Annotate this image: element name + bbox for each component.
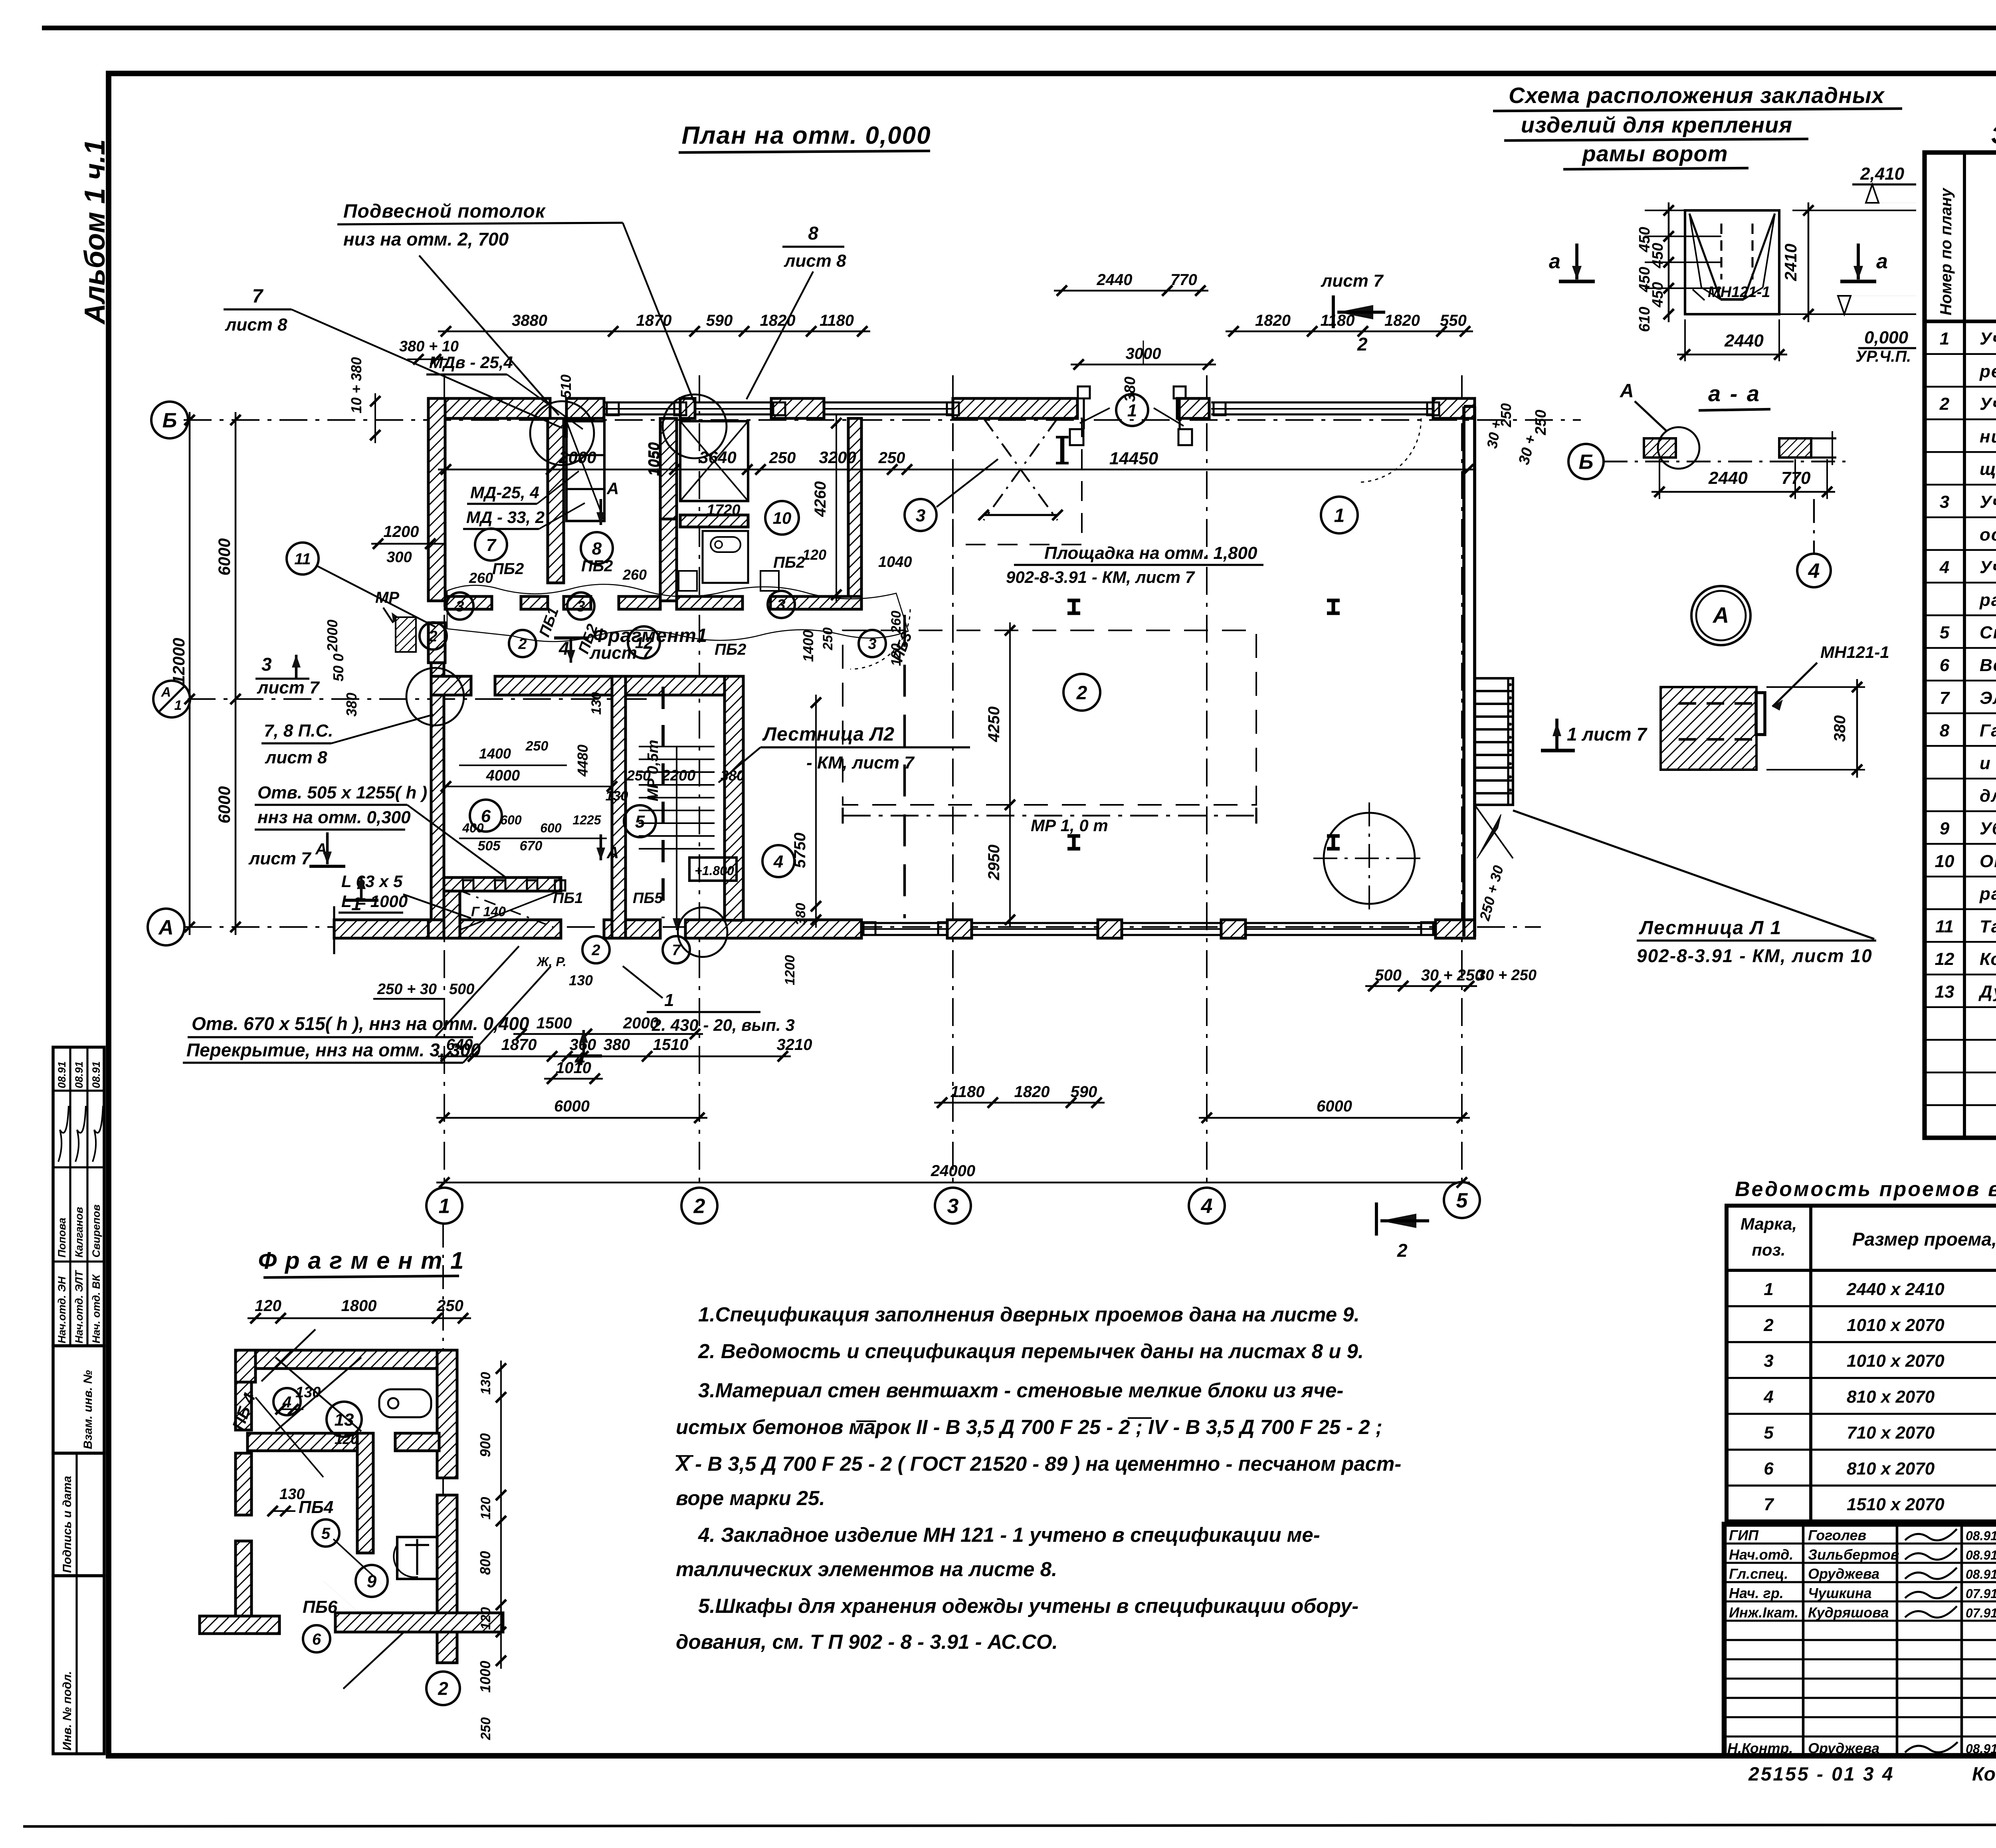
svg-text:4: 4	[773, 852, 783, 872]
svg-text:13: 13	[1935, 982, 1954, 1002]
svg-text:а: а	[1876, 250, 1888, 273]
svg-text:Нач.отд. ЭН: Нач.отд. ЭН	[56, 1276, 68, 1343]
svg-text:воре марки 25.: воре марки 25.	[676, 1487, 825, 1509]
svg-text:260: 260	[469, 570, 493, 586]
svg-text:ПБ2: ПБ2	[581, 557, 613, 575]
svg-text:поз.: поз.	[1752, 1240, 1785, 1259]
node gate dim 2440 770	[1054, 290, 1208, 292]
svg-text:4. Закладное изделие МН 121: 4. Закладное изделие МН 121 - 1 учтено в…	[698, 1523, 1320, 1546]
svg-text:щих и прочих промстоков: щих и прочих промстоков	[1980, 460, 1996, 479]
svg-text:10 + 380: 10 + 380	[348, 357, 364, 413]
wall corridor north	[445, 596, 492, 609]
svg-text:130: 130	[606, 788, 628, 804]
node room circle 1	[1321, 497, 1358, 533]
svg-text:300: 300	[386, 549, 412, 566]
svg-text:Оруджева: Оруджева	[1808, 1566, 1879, 1582]
node bottom dim 1500 2000	[513, 1033, 703, 1035]
svg-text:А: А	[606, 843, 619, 862]
svg-text:8: 8	[808, 223, 818, 244]
svg-text:3.Материал стен вентшахт -: 3.Материал стен вентшахт - стеновые мелк…	[698, 1379, 1343, 1402]
svg-text:Подвесной потолок: Подвесной потолок	[343, 201, 546, 222]
node room circle 2	[1063, 674, 1100, 711]
node room circle 5	[624, 805, 656, 837]
node axis line 4	[1206, 375, 1208, 1188]
svg-text:10: 10	[773, 509, 792, 527]
node MP hatch box	[396, 617, 416, 652]
svg-text:7: 7	[672, 942, 681, 959]
svg-text:Номер по плану: Номер по плану	[1937, 188, 1955, 315]
svg-text:3200: 3200	[819, 448, 856, 467]
svg-text:Участок очистки н: Участок очистки н	[1980, 329, 1996, 349]
node ramp squares	[463, 880, 473, 891]
svg-text:6: 6	[1940, 656, 1950, 675]
node dim 380 detail	[1856, 679, 1858, 778]
node room circle 10	[765, 501, 799, 535]
svg-text:1225: 1225	[572, 813, 601, 827]
svg-text:250: 250	[626, 767, 651, 784]
svg-text:5: 5	[635, 812, 645, 832]
svg-text:450: 450	[1649, 243, 1666, 268]
node fragment walls	[236, 1350, 457, 1369]
svg-text:Подпись и дата: Подпись и дата	[61, 1476, 74, 1573]
node fragment right dims	[500, 1361, 502, 1669]
node I mark gate	[1060, 437, 1064, 463]
svg-text:рамы ворот: рамы ворот	[1581, 141, 1728, 166]
node window frame marks top	[607, 402, 619, 415]
node fragment X shaft	[275, 1357, 361, 1431]
node axis line B	[184, 419, 1581, 421]
node axis circle A	[148, 909, 184, 945]
svg-text:лист 7: лист 7	[257, 678, 320, 697]
svg-text:Зильбертов: Зильбертов	[1808, 1546, 1899, 1563]
node fragment axis 2	[426, 1672, 460, 1705]
svg-text:770: 770	[1170, 271, 1197, 289]
node bottom 6000 left	[436, 1117, 707, 1119]
svg-text:120: 120	[478, 1497, 493, 1520]
svg-text:130: 130	[569, 972, 593, 988]
svg-text:1.Спецификация заполнения дв: 1.Спецификация заполнения дверных проемо…	[698, 1303, 1360, 1326]
svg-text:Участок приготовления: Участок приготовления	[1980, 558, 1996, 577]
node MH121-1 wall detail	[1661, 687, 1756, 770]
svg-text:4: 4	[1939, 558, 1949, 577]
node left stamp signature table	[53, 1047, 104, 1346]
node axis line 1	[444, 375, 445, 1188]
svg-text:А: А	[161, 685, 171, 700]
svg-text:1510 х 2070: 1510 х 2070	[1847, 1495, 1945, 1514]
svg-text:810 х 2070: 810 х 2070	[1847, 1459, 1935, 1478]
node bottom right dims 500	[1365, 985, 1477, 987]
svg-text:Копировал: Сидорова: Копировал: Сидорова	[1972, 1764, 1996, 1785]
svg-text:13: 13	[335, 1410, 354, 1430]
svg-text:6000: 6000	[1317, 1097, 1352, 1115]
wall lower north	[431, 676, 471, 695]
svg-text:1: 1	[174, 698, 182, 713]
svg-text:07.91: 07.91	[1966, 1606, 1996, 1620]
node platform dashed at gate	[953, 418, 1082, 545]
svg-text:МН121-1: МН121-1	[1820, 643, 1889, 662]
svg-text:Венткамера и тепловой пункт: Венткамера и тепловой пункт	[1980, 656, 1996, 675]
node title block	[1724, 1524, 1996, 1756]
svg-text:4480: 4480	[574, 745, 591, 777]
node level mark 0000	[1838, 296, 1851, 314]
node room circle 6	[470, 800, 502, 832]
svg-text:4250: 4250	[985, 707, 1003, 743]
node dim 2440 elevation	[1677, 354, 1787, 356]
svg-text:380 + 10: 380 + 10	[399, 338, 459, 355]
svg-text:1510: 1510	[653, 1036, 689, 1054]
wall right	[1462, 406, 1465, 937]
svg-text:Свирепов: Свирепов	[90, 1204, 102, 1258]
svg-text:250: 250	[1498, 403, 1514, 428]
node vent shafts room 8	[566, 421, 604, 521]
svg-text:7: 7	[1764, 1495, 1774, 1514]
svg-text:500: 500	[449, 981, 474, 998]
svg-text:10: 10	[1935, 852, 1954, 871]
svg-text:нических, краскосодержа-: нических, краскосодержа-	[1980, 427, 1996, 446]
svg-text:Площадка на отм. 1,800: Площадка на отм. 1,800	[1044, 543, 1257, 563]
svg-text:Нач. отд. ВК: Нач. отд. ВК	[90, 1274, 102, 1343]
svg-text:260: 260	[889, 611, 904, 634]
node shaft X room 13	[680, 421, 748, 501]
node room circle 12	[628, 626, 660, 658]
svg-text:Нач. гр.: Нач. гр.	[1729, 1585, 1784, 1601]
node fragment leaders	[261, 1329, 315, 1381]
svg-text:Х - В 3,5 Д 700 F 25 - 2 (: Х - В 3,5 Д 700 F 25 - 2 ( ГОСТ 21520 - …	[675, 1452, 1401, 1475]
svg-text:120: 120	[478, 1607, 493, 1630]
svg-text:Гл.спец.: Гл.спец.	[1729, 1566, 1788, 1582]
svg-text:380: 380	[1122, 376, 1139, 402]
node column marks	[1067, 598, 1080, 602]
svg-text:810 х 2070: 810 х 2070	[1847, 1387, 1935, 1407]
svg-text:Душевая: Душевая	[1978, 982, 1996, 1002]
svg-text:а: а	[1549, 250, 1560, 273]
svg-text:50 0: 50 0	[330, 654, 347, 681]
svg-text:120: 120	[335, 1431, 358, 1447]
svg-text:1: 1	[439, 1195, 450, 1218]
svg-text:лист 7: лист 7	[1321, 271, 1384, 291]
svg-text:Операторская и химлабо-: Операторская и химлабо-	[1980, 852, 1996, 871]
node axis line 2	[699, 375, 700, 1188]
svg-text:а - а: а - а	[1708, 381, 1761, 406]
svg-text:ннз на отм. 0,300: ннз на отм. 0,300	[257, 808, 411, 827]
svg-text:590: 590	[1071, 1083, 1097, 1101]
svg-text:Лестница Л 1: Лестница Л 1	[1639, 917, 1782, 939]
node stair L1	[1475, 678, 1513, 805]
node wc partition	[680, 515, 748, 527]
svg-text:МД - 33, 2: МД - 33, 2	[466, 508, 545, 527]
svg-text:- КМ, лист 7: - КМ, лист 7	[806, 753, 915, 772]
svg-text:Электрощитовая: Электрощитовая	[1980, 688, 1996, 708]
svg-text:Гоголев: Гоголев	[1808, 1527, 1866, 1543]
svg-text:лист 8: лист 8	[265, 748, 327, 767]
svg-text:1 лист 7: 1 лист 7	[1567, 724, 1647, 745]
svg-text:1500: 1500	[537, 1014, 572, 1032]
svg-text:2. 430 - 20, вып. 3: 2. 430 - 20, вып. 3	[651, 1016, 795, 1034]
svg-text:ПБ2: ПБ2	[773, 554, 805, 571]
svg-text:А: А	[1712, 602, 1729, 628]
svg-text:Попова: Попова	[56, 1218, 68, 1258]
svg-text:250: 250	[769, 449, 796, 467]
svg-text:120: 120	[802, 547, 826, 563]
svg-text:1: 1	[1764, 1280, 1773, 1299]
svg-text:ГИП: ГИП	[1729, 1527, 1759, 1543]
svg-text:6000: 6000	[215, 786, 234, 823]
svg-text:Отв. 670 х 515( h ), ннз на от: Отв. 670 х 515( h ), ннз на отм. 0,400	[192, 1013, 529, 1034]
node room circle 11	[287, 543, 319, 574]
node dims 5750 380	[815, 695, 817, 928]
svg-text:08.91: 08.91	[90, 1061, 102, 1088]
svg-text:3: 3	[1940, 492, 1949, 512]
svg-text:9: 9	[1940, 819, 1950, 838]
node axis B circle schema	[1568, 444, 1604, 479]
node section mark 1 list7	[1555, 719, 1558, 751]
svg-text:Ф р а г м е н т 1: Ф р а г м е н т 1	[258, 1247, 465, 1274]
node top right dim chain	[1226, 331, 1473, 333]
node detail A circle	[1691, 586, 1750, 645]
svg-text:Ведомость проемов ворот и двер: Ведомость проемов ворот и дверей	[1735, 1178, 1996, 1201]
svg-text:раствора: раствора	[1979, 590, 1996, 610]
svg-text:2000: 2000	[324, 620, 341, 652]
svg-text:лист 7: лист 7	[248, 849, 312, 868]
svg-text:30 + 250: 30 + 250	[1421, 967, 1484, 984]
svg-text:Тамбур: Тамбур	[1980, 917, 1996, 936]
svg-text:08.91: 08.91	[1966, 1548, 1996, 1562]
svg-text:600: 600	[540, 821, 562, 835]
svg-text:670: 670	[520, 838, 543, 854]
node axis circle 4	[1189, 1188, 1225, 1224]
svg-text:УР.Ч.П.: УР.Ч.П.	[1855, 348, 1911, 365]
wall left	[428, 398, 445, 601]
svg-text:Лестница Л2: Лестница Л2	[762, 724, 895, 745]
svg-text:Схема расположения закладных: Схема расположения закладных	[1509, 83, 1885, 108]
svg-text:2440: 2440	[1724, 331, 1764, 351]
svg-text:ПБ5: ПБ5	[633, 890, 663, 907]
svg-text:4: 4	[558, 638, 569, 659]
svg-text:таллических элементов на: таллических элементов на листе 8.	[676, 1558, 1057, 1581]
svg-text:8: 8	[592, 539, 602, 559]
svg-text:2: 2	[438, 1678, 448, 1699]
svg-text:2: 2	[1357, 334, 1368, 355]
node circled 3 leader	[905, 499, 937, 531]
svg-text:А: А	[158, 916, 174, 939]
node section arrow 3	[295, 655, 298, 679]
node axis 4 line schema	[1813, 499, 1815, 555]
svg-text:Кудряшова: Кудряшова	[1808, 1604, 1889, 1620]
svg-text:7: 7	[1940, 688, 1950, 708]
svg-text:11: 11	[294, 550, 311, 568]
svg-text:+1.800: +1.800	[695, 864, 734, 878]
node dim 14450	[438, 469, 1476, 471]
node left dim 12000	[189, 412, 191, 935]
node bottom windows	[861, 922, 947, 924]
svg-text:12: 12	[1935, 949, 1954, 969]
node axis line 5	[1461, 375, 1463, 1188]
svg-text:250: 250	[525, 739, 549, 754]
svg-text:4: 4	[1201, 1195, 1213, 1218]
svg-text:14450: 14450	[1109, 449, 1158, 468]
svg-text:3: 3	[576, 598, 585, 615]
svg-text:30 + 250: 30 + 250	[1477, 967, 1537, 984]
svg-text:710 х 2070: 710 х 2070	[1847, 1423, 1935, 1442]
svg-text:7: 7	[486, 535, 497, 555]
svg-text:истых бетонов марок II - В: истых бетонов марок II - В 3,5 Д 700 F 2…	[676, 1416, 1382, 1438]
svg-text:2440 х 2410: 2440 х 2410	[1846, 1280, 1945, 1299]
node gate elevation	[1685, 210, 1779, 314]
svg-text:3: 3	[947, 1195, 959, 1218]
svg-text:1050: 1050	[646, 442, 663, 476]
svg-text:2200: 2200	[661, 767, 696, 784]
svg-text:Гардероб уличной, домашней: Гардероб уличной, домашней	[1980, 721, 1996, 741]
svg-text:130: 130	[295, 1384, 321, 1401]
node detail circle corner	[406, 668, 464, 725]
node ramp walls	[444, 877, 460, 938]
svg-text:лист 8: лист 8	[225, 315, 287, 335]
svg-text:Нач.отд.: Нач.отд.	[1729, 1546, 1793, 1563]
svg-text:План на отм. 0,000: План на отм. 0,000	[681, 122, 931, 149]
svg-text:5.Шкафы для хранения одежды: 5.Шкафы для хранения одежды учтены в спе…	[698, 1594, 1358, 1617]
node window frame marks bottom	[863, 922, 875, 935]
wall top	[428, 398, 550, 418]
svg-text:1180: 1180	[950, 1083, 984, 1101]
svg-text:Уборная: Уборная	[1980, 819, 1996, 838]
svg-text:12000: 12000	[169, 638, 188, 685]
node top dim chain	[438, 331, 870, 333]
svg-text:Оруджева: Оруджева	[1808, 1740, 1879, 1757]
node room circle 7	[475, 529, 507, 561]
svg-text:1010: 1010	[556, 1059, 591, 1077]
svg-text:1400: 1400	[800, 630, 816, 662]
svg-text:4: 4	[282, 1393, 291, 1411]
svg-text:Чушкина: Чушкина	[1808, 1585, 1872, 1601]
svg-text:08.91: 08.91	[73, 1061, 85, 1088]
node detail circle top2	[663, 394, 727, 458]
svg-text:МД-25, 4: МД-25, 4	[470, 483, 539, 502]
svg-text:Склад моющего раствора: Склад моющего раствора	[1980, 623, 1996, 642]
node bottom right window dims	[934, 1102, 1105, 1104]
svg-text:380: 380	[793, 903, 808, 926]
svg-text:Отв. 505 х 1255( h ): Отв. 505 х 1255( h )	[257, 783, 427, 802]
svg-text:120: 120	[255, 1297, 281, 1315]
svg-text:МР 1, 0 т: МР 1, 0 т	[1031, 816, 1108, 835]
node fragment axis line	[442, 1224, 444, 1665]
svg-text:1: 1	[1127, 401, 1137, 420]
node MP 0,5t dashed	[661, 687, 665, 918]
svg-text:130: 130	[589, 692, 604, 715]
node tank circle	[1324, 813, 1415, 904]
svg-text:Н.Контр.: Н.Контр.	[1727, 1740, 1793, 1757]
svg-text:1: 1	[664, 990, 674, 1010]
wall partition 7-8	[548, 418, 564, 583]
svg-text:1870: 1870	[501, 1036, 537, 1054]
svg-text:550: 550	[1440, 312, 1467, 329]
node detail circle top1	[530, 401, 594, 465]
svg-text:4000: 4000	[486, 767, 520, 784]
svg-text:2: 2	[693, 1195, 705, 1218]
node axis line A1	[188, 698, 655, 700]
node bottom 6000 right	[1199, 1117, 1470, 1119]
svg-text:Участок утилизации: Участок утилизации	[1980, 492, 1996, 512]
svg-text:3: 3	[916, 506, 925, 525]
node axis circle 1	[426, 1188, 462, 1224]
svg-text:А: А	[1620, 380, 1634, 402]
svg-text:3880: 3880	[512, 312, 547, 329]
svg-text:1000: 1000	[477, 1661, 493, 1693]
svg-text:1800: 1800	[341, 1297, 377, 1315]
node stair arrow	[676, 862, 677, 930]
svg-text:1040: 1040	[878, 554, 912, 570]
svg-text:Инв. № подл.: Инв. № подл.	[61, 1671, 74, 1751]
svg-text:250: 250	[478, 1717, 493, 1741]
svg-text:регенерации: регенерации	[1979, 362, 1996, 381]
svg-text:Альбом 1 ч.1: Альбом 1 ч.1	[79, 139, 111, 325]
svg-text:902-8-3.91 - КМ, лист 10: 902-8-3.91 - КМ, лист 10	[1637, 945, 1873, 966]
node left dim 6000s	[235, 412, 237, 935]
svg-text:900: 900	[477, 1433, 493, 1457]
svg-text:2: 2	[591, 942, 600, 959]
svg-text:лист 7: лист 7	[589, 643, 653, 663]
svg-text:1010 х 2070: 1010 х 2070	[1847, 1351, 1945, 1371]
node detail circle stairdoor	[678, 907, 727, 957]
svg-text:6: 6	[312, 1630, 321, 1648]
wire	[42, 26, 1996, 30]
svg-text:Марка,: Марка,	[1741, 1214, 1797, 1233]
node bottom 24000	[436, 1182, 1470, 1184]
node room4 dashed boundary	[903, 615, 906, 918]
svg-text:Взам. инв. №: Взам. инв. №	[81, 1370, 95, 1449]
svg-text:510: 510	[558, 374, 574, 398]
node dim 2410	[1808, 202, 1810, 322]
svg-text:2440: 2440	[1097, 271, 1133, 289]
node gate mark circle 1	[1116, 394, 1148, 426]
node axis circle 5	[1444, 1182, 1480, 1218]
node bottom dim 1010	[544, 1078, 603, 1080]
svg-text:7: 7	[252, 286, 264, 307]
svg-text:770: 770	[1781, 468, 1811, 488]
svg-text:800: 800	[477, 1551, 493, 1575]
svg-text:2: 2	[428, 628, 437, 645]
svg-text:МР: МР	[375, 589, 399, 606]
svg-text:2. Ведомость и спецификация: 2. Ведомость и спецификация перемычек да…	[698, 1340, 1364, 1363]
svg-text:МН121-1: МН121-1	[1708, 284, 1770, 301]
svg-text:Перекрытие, ннз на отм. 3, 300: Перекрытие, ннз на отм. 3, 300	[186, 1040, 481, 1060]
svg-text:3: 3	[777, 597, 785, 614]
node door arc corridor	[850, 609, 910, 669]
svg-text:2440: 2440	[1708, 468, 1748, 488]
node axis circle 2	[681, 1188, 717, 1224]
svg-text:1200: 1200	[782, 955, 798, 985]
node axis circle 3	[935, 1188, 971, 1224]
node wc fixtures	[711, 537, 741, 552]
node stairs L2	[639, 746, 715, 747]
svg-text:МДв - 25,4: МДв - 25,4	[429, 353, 513, 372]
svg-text:Размер проема, мм: Размер проема, мм	[1852, 1229, 1996, 1250]
node gate dim 3000	[1071, 364, 1216, 366]
node top windows	[604, 401, 680, 403]
svg-text:Коридор: Коридор	[1980, 949, 1996, 969]
svg-text:7, 8 П.С.: 7, 8 П.С.	[264, 721, 333, 741]
svg-text:для гр.3б на 8шк. + 2шк.: для гр.3б на 8шк. + 2шк.	[1980, 786, 1996, 806]
svg-text:4260: 4260	[812, 481, 829, 517]
node crane zone dashed	[843, 630, 1256, 805]
svg-text:2: 2	[1763, 1315, 1774, 1335]
svg-text:2,410: 2,410	[1860, 164, 1905, 184]
svg-text:2: 2	[1076, 682, 1087, 703]
svg-text:130: 130	[279, 1486, 305, 1503]
wall partition 6-5	[612, 676, 626, 938]
node room circle 4	[762, 845, 794, 877]
svg-text:1400: 1400	[479, 745, 511, 762]
node crane centreline	[843, 815, 1256, 817]
